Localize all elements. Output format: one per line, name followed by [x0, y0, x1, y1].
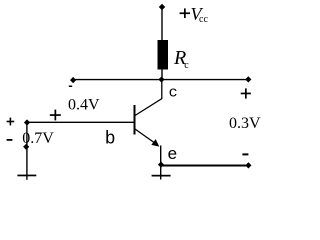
svg-text:e: e	[167, 146, 177, 165]
node: dot on source wire	[23, 144, 29, 150]
label + (right, below top rail)	[241, 88, 251, 98]
svg-text:c: c	[184, 60, 189, 71]
label - (below left end of top rail)	[69, 86, 72, 88]
svg-text:0.4V: 0.4V	[68, 96, 100, 113]
transistor Q1 emitter lead	[135, 129, 156, 144]
label + (far left)	[7, 118, 15, 126]
svg-text:b: b	[105, 129, 116, 149]
node: base input terminal	[24, 119, 30, 125]
label + (above base wire)	[50, 110, 61, 121]
node: bottom rail right end	[245, 162, 251, 168]
svg-text:c: c	[169, 85, 178, 102]
ground (emitter)	[152, 175, 171, 177]
resistor Rc	[158, 40, 169, 70]
label - (far left)	[7, 139, 13, 141]
wire: base horizontal	[27, 121, 134, 123]
node: collector junction	[158, 76, 164, 82]
node: emitter junction	[158, 162, 164, 168]
ground (left)	[17, 175, 36, 177]
svg-text:0.3V: 0.3V	[229, 115, 261, 132]
label +Vcc	[180, 4, 209, 25]
wire: left source vertical	[26, 123, 28, 180]
wire: bottom horizontal emitter rail	[161, 165, 248, 167]
transistor Q1 base bar	[134, 105, 136, 135]
label - (right, above bottom rail)	[242, 153, 248, 155]
wire: top horizontal collector rail	[73, 79, 248, 81]
node: rail right end	[245, 76, 251, 82]
node: rail left end	[70, 77, 76, 83]
transistor Q1 collector lead	[135, 80, 162, 116]
wire: Vcc supply vertical	[161, 7, 163, 41]
svg-text:cc: cc	[199, 14, 208, 25]
wire: resistor to collector rail	[161, 69, 163, 80]
node: Vcc terminal	[159, 4, 165, 10]
wire: emitter vertical	[160, 146, 162, 180]
transistor Q1 emitter arrowhead	[151, 139, 159, 147]
